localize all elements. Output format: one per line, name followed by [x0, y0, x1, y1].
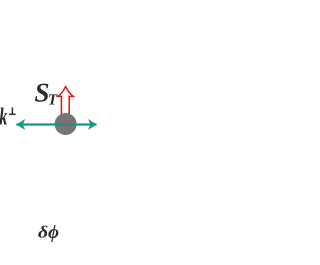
- svg-text:ϕ: ϕ: [48, 222, 59, 243]
- gray circle (particle): [55, 113, 77, 135]
- svg-text:δ: δ: [38, 223, 49, 242]
- red hollow arrow (S_T direction, pointing up): [58, 87, 73, 118]
- perp superscript: horizontal bar: [9, 113, 15, 115]
- teal right arrowhead: [88, 119, 97, 130]
- teal horizontal shaft (k-perp axis): [16, 123, 96, 125]
- svg-text:k: k: [0, 104, 8, 131]
- perp superscript: vertical stroke: [11, 107, 13, 114]
- teal left arrowhead: [16, 119, 25, 130]
- physics diagram: transverse spin S_T, momentum k-perp, angle delta-phi: [0, 0, 97, 265]
- svg-text:T: T: [48, 92, 58, 109]
- dark stripe over circle middle: [61, 123, 72, 125]
